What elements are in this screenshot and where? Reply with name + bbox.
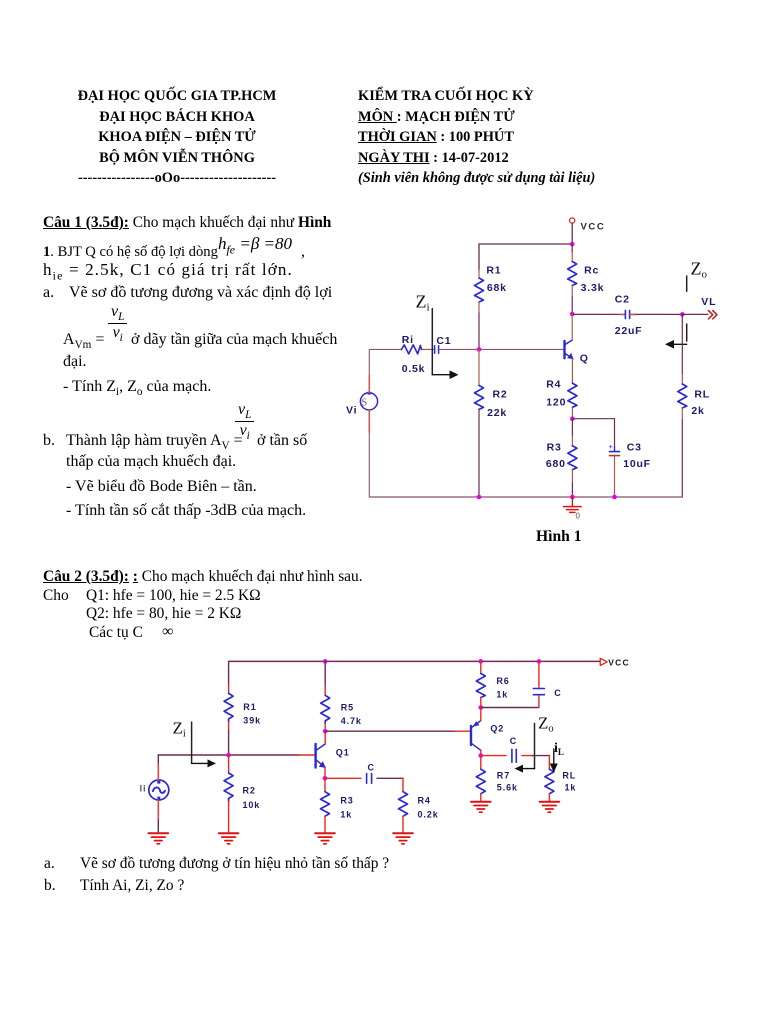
ground R3 [315, 833, 335, 844]
svg-text:S: S [362, 398, 368, 409]
wire R4 to emitter node [571, 407, 573, 418]
wire Q1 collector up [324, 731, 326, 744]
svg-text:120: 120 [546, 397, 566, 409]
svg-text:R1: R1 [486, 265, 501, 277]
wire R2 lower lead 2 [228, 801, 230, 833]
transistor Q base bar [563, 341, 565, 358]
capacitor C bypass [533, 661, 544, 707]
iL arrow down [550, 749, 558, 773]
resistor R2 c2 [224, 773, 233, 801]
svg-text:R2: R2 [243, 785, 256, 795]
wire base row left [370, 348, 402, 350]
transistor Q emitter line with arrow [566, 353, 574, 359]
wire R6 node to C bypass [481, 707, 539, 709]
ground R4 [393, 833, 413, 844]
svg-text:Q1: Q1 [336, 747, 350, 757]
wire emitter node to C3 [572, 418, 614, 420]
svg-text:iL: iL [554, 741, 564, 757]
wire output row right [522, 755, 532, 757]
wire emitter down to R4 [571, 359, 573, 384]
wire R2 upper lead [478, 349, 480, 385]
resistor R3 [568, 446, 577, 470]
VL chevron terminal [709, 311, 718, 319]
svg-text:Q2: Q2 [490, 723, 504, 733]
Zo arrow left [665, 340, 687, 349]
wire Q1 emitter down [324, 767, 326, 778]
capacitor C emitter [367, 774, 372, 784]
resistor Rc [568, 262, 577, 286]
resistor R7 [476, 769, 485, 794]
node Q1 emitter junction [323, 776, 328, 781]
wire output stub to VL [682, 313, 708, 315]
resistor R2 [475, 385, 484, 409]
wire R7 top lead [480, 756, 482, 770]
node R6 bottom junction [479, 705, 484, 710]
wire collector vertical [571, 314, 573, 340]
svg-text:680: 680 [546, 458, 566, 470]
wire Q2 collector down [480, 750, 482, 755]
node emitter junction [570, 416, 575, 421]
svg-text:Zi: Zi [416, 292, 430, 314]
wire collector row to Q2 base [325, 730, 455, 732]
transistor Q collector line [565, 340, 572, 344]
svg-text:10uF: 10uF [623, 458, 651, 470]
Zi measurement line 2 [191, 722, 193, 763]
wire emitter row right [377, 777, 403, 779]
svg-text:RL: RL [694, 389, 710, 401]
svg-text:10k: 10k [243, 800, 261, 810]
item a [43, 283, 54, 304]
resistor RL [678, 384, 687, 408]
wire R1 upper lead [478, 244, 480, 270]
wire output down to RL [681, 314, 683, 374]
Zo measurement line upper [686, 276, 688, 291]
svg-text:4.7k: 4.7k [341, 716, 362, 726]
wire R3 upper lead 2 [324, 778, 326, 791]
node bottom R2 junction [477, 495, 482, 500]
wire C2 to output node [636, 313, 682, 315]
svg-text:C2: C2 [615, 294, 630, 306]
svg-text:1k: 1k [340, 809, 352, 819]
node rail R6 junction [479, 659, 484, 664]
Zi arrow right 2 [192, 759, 216, 767]
wire R1 lower lead [478, 302, 480, 313]
capacitor C3 [609, 419, 620, 497]
wire R3 lower lead 2 [324, 816, 326, 833]
wire Rc upper lead [571, 244, 573, 252]
wire R1 red lead bottom [228, 722, 230, 731]
wire R2 lower lead [478, 409, 480, 497]
wire R4 lower lead 2 [402, 816, 404, 833]
svg-text:R5: R5 [341, 703, 354, 713]
wire Ii top [157, 755, 159, 764]
svg-text:RL: RL [562, 770, 576, 780]
wire R5 lower lead [324, 724, 326, 732]
bottom items [44, 854, 55, 875]
wire bottom rail [369, 496, 682, 498]
wire R1 red lead top [228, 685, 230, 694]
svg-text:C: C [554, 688, 561, 698]
cau 2 text [43, 568, 363, 642]
node rail R5 junction [323, 659, 328, 664]
cau 1 line 3 [43, 260, 293, 286]
Hinh 1 caption [536, 528, 582, 546]
capacitor C output [512, 749, 516, 762]
wire Q2 emitter up [480, 708, 482, 721]
source Vi circle [360, 392, 377, 410]
resistor R4 c2 [399, 792, 408, 817]
node rail C junction [537, 659, 542, 664]
wire R3 lower lead [571, 470, 573, 483]
wire Q2 base red lead [455, 730, 470, 732]
svg-text:Vi: Vi [346, 405, 357, 417]
VCC terminal circle [570, 218, 575, 223]
svg-text:R1: R1 [243, 702, 256, 712]
wire Ri to C1 [422, 348, 434, 350]
transistor Q1 base bar [314, 744, 316, 768]
node bottom R3 junction [570, 495, 575, 500]
header right [358, 86, 595, 189]
Zo arrow left 2 [515, 765, 535, 773]
wire RL lower lead 2 [548, 794, 550, 802]
Zi measurement line [431, 309, 433, 375]
svg-text:Zi: Zi [173, 719, 186, 740]
wire R1 branch lower [228, 730, 230, 755]
wire top rail [479, 243, 572, 245]
wire R3 upper lead [571, 419, 573, 436]
wire top rail 2 [229, 660, 600, 662]
wire R6 lower lead [480, 698, 482, 708]
transistor Q2 collector line [472, 744, 481, 751]
svg-text:22k: 22k [487, 407, 507, 419]
svg-text:Zo: Zo [538, 713, 554, 734]
resistor R1 [475, 278, 484, 302]
VCC terminal triangle [600, 658, 607, 665]
svg-text:C: C [510, 736, 517, 746]
node Q1 collector junction [323, 729, 328, 734]
resistor R1 c2 [224, 693, 233, 721]
ground Ii [149, 833, 169, 844]
svg-text:R7: R7 [497, 770, 510, 780]
node collector junction [570, 312, 575, 317]
wire VCC stub [571, 223, 573, 244]
svg-text:R4: R4 [418, 795, 431, 805]
wire Vi bottom [368, 410, 370, 432]
svg-text:22uF: 22uF [615, 325, 643, 337]
node input junction [226, 753, 231, 758]
transistor Q2 base bar [470, 726, 472, 745]
AVm line with fraction [63, 330, 104, 356]
cau 1 line 2 [43, 242, 218, 263]
svg-text:Zo: Zo [691, 259, 708, 281]
wire R5 upper lead [324, 661, 326, 686]
svg-text:C3: C3 [627, 442, 642, 454]
wire collector to C2 [572, 313, 619, 315]
source Ii circle [149, 780, 169, 800]
wire Ii bottom [157, 800, 159, 820]
svg-text:VL: VL [701, 296, 716, 308]
resistor R5 [321, 695, 330, 723]
node top rail junction [570, 242, 575, 247]
svg-text:Ii: Ii [140, 784, 147, 795]
resistor R6 [476, 674, 485, 698]
wire input row [158, 754, 299, 756]
transistor Q1 emitter line with arrow [317, 760, 326, 768]
node bottom C3 junction [612, 495, 617, 500]
ground RL [540, 802, 560, 813]
svg-text:0.2k: 0.2k [418, 809, 439, 819]
transistor Q2 emitter line with arrow PNP [472, 721, 481, 728]
ground R7 [471, 802, 491, 813]
svg-text:3.3k: 3.3k [581, 282, 605, 294]
wire Rc lower lead [571, 286, 573, 298]
capacitor C2 [619, 310, 636, 318]
svg-text:68k: 68k [487, 282, 507, 294]
node Q2 collector junction [479, 753, 484, 758]
wire Vi top [368, 349, 370, 375]
Zo measurement line 2 [534, 723, 536, 768]
svg-text:R6: R6 [496, 676, 509, 686]
svg-text:R4: R4 [546, 379, 561, 391]
equation hfe [218, 234, 292, 257]
wire emitter row left [325, 777, 361, 779]
wire RL lower lead [681, 408, 683, 420]
ground symbol circuit 1 [564, 507, 582, 513]
resistor RL c2 [545, 769, 554, 794]
resistor R3 c2 [321, 792, 330, 817]
header left [56, 86, 298, 189]
svg-text:C1: C1 [436, 335, 451, 347]
Zo measurement line lower [686, 324, 688, 341]
capacitor C1 [435, 346, 439, 354]
svg-text:1k: 1k [565, 782, 577, 792]
svg-text:0: 0 [576, 512, 581, 521]
svg-text:2k: 2k [691, 405, 704, 417]
wire R5 red lead [324, 687, 326, 696]
wire R2 red lead top 2 [228, 755, 230, 773]
transistor Q1 collector line [317, 744, 326, 750]
item b [43, 431, 55, 452]
node output junction [680, 312, 685, 317]
Zi arrow right [432, 370, 458, 379]
wire R1 branch upper [228, 661, 230, 684]
svg-text:39k: 39k [243, 715, 261, 725]
wire R4 top lead [402, 778, 404, 791]
svg-text:0.5k: 0.5k [402, 363, 426, 375]
svg-text:C: C [368, 762, 375, 772]
svg-text:VCC: VCC [581, 222, 606, 233]
wire output row left [481, 755, 506, 757]
svg-text:Ri: Ri [402, 334, 414, 346]
wire C1 to base [440, 348, 564, 350]
wire R7 lower lead [480, 794, 482, 802]
ground stub [571, 497, 573, 506]
resistor Ri [402, 345, 422, 354]
resistor R4 [568, 383, 577, 407]
svg-text:VCC: VCC [608, 657, 630, 667]
svg-text:Rc: Rc [584, 265, 599, 277]
svg-text:+: + [609, 442, 614, 451]
ground R2 [219, 833, 239, 844]
svg-text:R2: R2 [493, 389, 508, 401]
svg-text:1k: 1k [496, 689, 508, 699]
wire R6 upper lead [480, 661, 482, 673]
svg-text:R3: R3 [547, 442, 562, 454]
cau 1 line 1 [43, 213, 331, 234]
svg-text:R3: R3 [340, 795, 353, 805]
svg-text:Q: Q [580, 353, 589, 365]
wire RL down [548, 756, 550, 770]
svg-text:5.6k: 5.6k [497, 782, 518, 792]
node base junction [477, 347, 482, 352]
